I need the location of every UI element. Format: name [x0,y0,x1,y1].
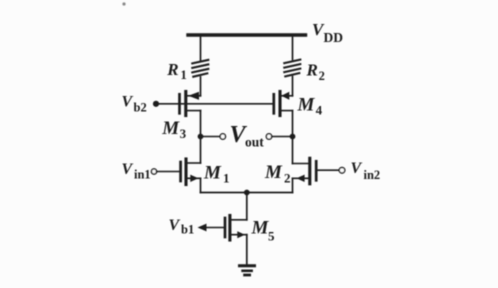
M3 label [161,118,186,141]
svg-text:4: 4 [316,102,323,117]
R2 value label [306,60,325,83]
wire VDD to R2 [292,35,294,60]
svg-text:out: out [245,135,264,150]
svg-text:b2: b2 [134,101,147,115]
transistor M1 (NMOS) [181,159,201,185]
svg-text:R: R [166,60,178,79]
wire Vb1 to M5 gate [204,227,224,229]
svg-text:b1: b1 [181,223,194,237]
wire R2 to M4 top [292,77,294,96]
svg-text:DD: DD [324,30,344,45]
M4 label [297,95,323,118]
wire VDD to R1 [200,35,202,60]
node Vin1 (label + open terminal) [122,161,157,182]
svg-text:1: 1 [223,171,230,186]
node VDD label [312,20,343,45]
svg-text:M: M [203,163,222,184]
svg-text:M: M [251,218,270,239]
junction tail node [244,190,250,196]
resistor R1 [192,60,208,77]
scan artifact dot [122,2,125,5]
wire tail node [201,192,293,194]
svg-text:V: V [122,94,134,111]
svg-text:2: 2 [284,171,291,186]
wire M1 source down to tail [200,178,202,192]
wire M3 drain down to output node [200,111,202,163]
svg-text:2: 2 [319,69,325,83]
svg-text:V: V [351,160,363,177]
wire to Vout left terminal [201,136,221,138]
svg-text:M: M [161,118,180,139]
VDD rail [188,33,306,36]
wire M4 drain down to output node [292,111,294,164]
wire Vb2 to M3 gate and on to M4 gate [158,103,272,105]
transistor M5 (NMOS tail source) [225,216,247,241]
junction left output node [198,134,204,140]
svg-text:3: 3 [180,126,187,141]
wire from Vout right terminal [272,136,293,138]
ground [240,266,255,275]
svg-text:in2: in2 [364,168,381,182]
transistor M4 (PMOS, source at top) [274,92,293,116]
wire Vin1 to M1 gate [157,171,180,173]
svg-text:5: 5 [268,229,275,244]
node Vin2 (open terminal + label) [339,160,380,182]
resistor R2 [284,60,300,77]
transistor M3 (PMOS, source at top) [180,92,201,116]
svg-text:M: M [297,95,316,116]
wire M2 source down to tail [292,178,294,192]
M5 label [251,218,276,244]
M1 label [203,163,230,186]
node Vout (open terminals + label) [220,122,272,150]
wire tail down to M5 drain [246,193,248,220]
junction right output node [290,134,296,140]
node Vb1 (label + arrow terminal) [169,217,207,237]
wire M2 gate to Vin2 terminal [318,169,339,171]
svg-text:1: 1 [181,68,187,82]
transistor M2 (NMOS, mirrored) [293,158,317,184]
M2 label [264,162,291,186]
svg-text:V: V [122,161,134,178]
svg-text:in1: in1 [134,168,151,182]
wire M5 source to ground [246,235,248,265]
node Vb2 (terminal dot + label) [122,94,160,115]
svg-text:M: M [264,162,283,183]
svg-text:R: R [306,60,318,79]
wire R1 to M3 drain-top [200,77,202,96]
R1 value label [166,60,187,82]
svg-text:V: V [169,217,181,234]
